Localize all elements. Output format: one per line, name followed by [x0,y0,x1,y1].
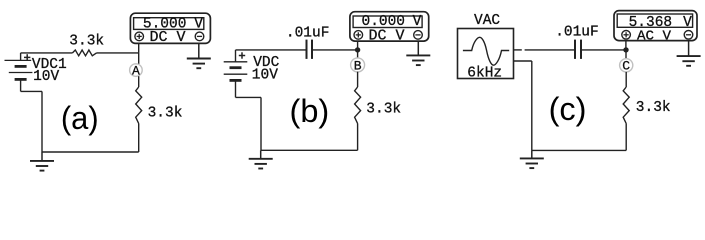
svg-text:.01uF: .01uF [286,25,330,41]
wire: battery V1 positive stem [20,53,22,61]
svg-text:VAC: VAC [474,13,500,29]
wire: battery V2 top to capacitor C1 [236,49,307,51]
node balloon B [351,58,365,73]
svg-text:(c): (c) [549,91,587,127]
svg-text:(b): (b) [290,93,330,129]
ground (circuit b bottom) [249,150,273,168]
wire: capacitor C1 to node B [312,49,358,51]
wire: battery V1 negative stem [20,79,22,91]
svg-text:3.3k: 3.3k [366,101,401,117]
wire: jog to ground corner (a) [21,90,42,92]
svg-text:.01uF: .01uF [555,25,599,41]
svg-text:(a): (a) [61,99,99,136]
wire: VAC return stub [514,60,532,62]
wire: node B down to balloon B [357,50,359,58]
wire: VAC output stub [514,49,522,51]
wire: balloon C to resistor R4 [625,72,627,87]
voltmeter M3 body [614,11,697,41]
svg-text:3.3k: 3.3k [69,33,104,49]
wire: node C down to balloon C [625,50,627,59]
wire: node C up to voltmeter M3 plus terminal [625,41,627,50]
wire: resistor R2 to bottom rail [138,124,140,153]
ground (voltmeter M3) [677,41,701,66]
wire: bottom rail (b) [261,149,358,151]
junction dot node B [355,47,360,52]
voltmeter M3 display [617,14,692,27]
svg-text:V: V [683,15,692,31]
voltmeter M1 display [134,18,204,30]
wire: to capacitor C2 [525,49,575,51]
resistor R4 3.3k (vertical) [623,87,629,124]
wire: balloon B to resistor R3 [357,72,359,87]
ground (voltmeter M2) [406,41,430,65]
junction dot node C [623,47,628,52]
wire: battery V2 positive stem [235,50,237,62]
ground (voltmeter M1) [187,43,211,68]
wire: node B up to voltmeter M2 plus terminal [357,41,359,50]
wire: bottom rail (a) [42,151,139,153]
voltmeter M1 body [130,13,210,43]
svg-text:6kHz: 6kHz [467,66,502,82]
svg-text:DC V: DC V [369,28,405,45]
wire: capacitor C2 to node C [581,49,626,51]
resistor R1 3.3k (series, horizontal) [73,50,97,56]
voltmeter M2 body [350,12,429,41]
svg-text:10V: 10V [252,68,278,84]
wire: junction up to voltmeter M1 plus terminal [138,43,140,53]
resistor R2 3.3k (vertical) [136,87,142,124]
AC source VAC box [458,29,514,79]
AC source sine wave symbol [463,37,509,65]
capacitor C2 plates [575,40,581,59]
svg-text:C: C [622,59,630,74]
node balloon A [130,64,143,79]
svg-text:DC V: DC V [150,29,186,46]
voltmeter M3 minus terminal symbol [684,31,693,40]
wire: left vertical down to bottom rail (b) [260,97,262,150]
wire: resistor R4 to bottom rail (c) [625,124,627,151]
voltmeter M2 plus terminal symbol [354,31,363,40]
svg-text:10V: 10V [33,69,59,85]
svg-text:V: V [194,16,203,32]
voltmeter M2 minus terminal symbol [414,31,423,40]
svg-text:AC V: AC V [637,29,672,45]
voltmeter M1 minus terminal symbol [195,32,204,41]
wire: resistor R1 to node A junction [97,52,139,54]
wire: balloon A to resistor R2 [138,76,140,87]
wire: left vertical down to bottom rail (c) [531,61,533,150]
svg-text:V: V [413,14,422,30]
resistor R3 3.3k (vertical) [355,87,361,124]
capacitor C1 plates [307,40,313,59]
svg-text:3.3k: 3.3k [148,106,183,122]
wire: bottom rail (c) [532,149,626,151]
battery V2 plus sign [239,52,245,58]
wire: battery V2 negative stem [235,80,237,97]
svg-text:B: B [354,58,362,73]
ground (circuit a bottom) [30,152,54,171]
wire: jog to ground corner (b) [236,96,262,98]
wire: junction down to node balloon A [138,53,140,64]
voltmeter M2 display [353,16,422,28]
wire: resistor R3 to bottom rail (b) [357,124,359,151]
voltmeter M1 plus terminal symbol [135,32,144,41]
node balloon C [620,59,633,74]
svg-text:3.3k: 3.3k [636,100,671,116]
battery V2 plates [224,62,248,81]
battery V1 plus sign [24,54,30,60]
battery V1 plates [5,60,33,79]
ground (circuit c bottom) [520,150,544,168]
wire: battery V1 top to resistor R1 [21,52,73,54]
voltmeter M3 plus terminal symbol [622,31,631,40]
wire: left vertical down to bottom rail (a) [41,91,43,152]
